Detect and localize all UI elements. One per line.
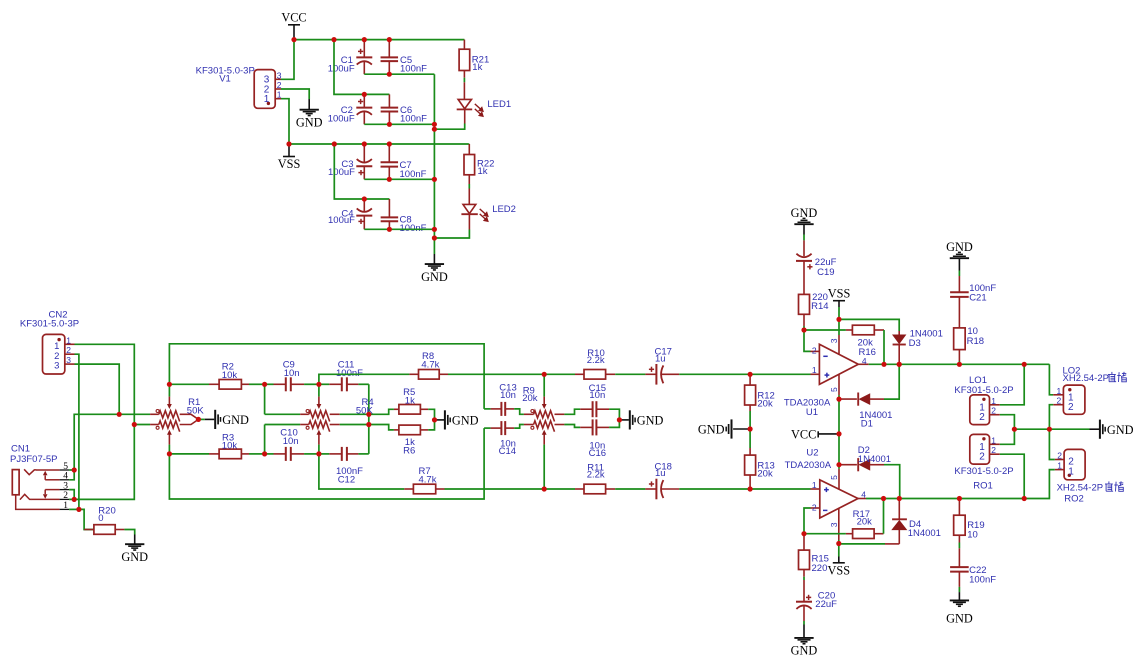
- svg-text:100uF: 100uF: [328, 215, 355, 226]
- wire VCC top rail: [294, 39, 464, 41]
- svg-text:VSS: VSS: [828, 287, 851, 301]
- svg-text:V1: V1: [219, 73, 231, 84]
- svg-text:100uF: 100uF: [328, 114, 355, 125]
- svg-text:RO2: RO2: [1064, 493, 1084, 504]
- svg-text:220: 220: [812, 563, 828, 574]
- svg-text:2: 2: [1057, 451, 1062, 461]
- wire R4 wiper top: [318, 384, 320, 396]
- resistor R19 10: [958, 499, 960, 516]
- wire CN2 pin2 down: [75, 354, 79, 509]
- wire R4 wiper bottom: [318, 445, 320, 454]
- label LO2 Chinese zhicha: [1108, 372, 1116, 382]
- U1 pin4 output stub: [858, 363, 868, 365]
- svg-text:1N4001: 1N4001: [858, 454, 891, 465]
- wire row2 feed: [334, 40, 389, 95]
- junction: [748, 486, 753, 491]
- ground GND bottom of power section: [433, 254, 435, 264]
- svg-text:GND: GND: [296, 116, 323, 130]
- svg-text:2: 2: [277, 80, 282, 90]
- U2 pin2 stub: [811, 507, 820, 509]
- junction: [167, 451, 172, 456]
- capacitor C9 10n: [265, 383, 274, 385]
- junction: [748, 372, 753, 377]
- wire U2 pin3 to VSS: [838, 540, 840, 557]
- svg-text:5: 5: [63, 462, 68, 472]
- junction: [362, 196, 367, 201]
- svg-text:KF301-5.0-2P: KF301-5.0-2P: [954, 466, 1013, 477]
- svg-text:50K: 50K: [187, 406, 205, 417]
- junction: [76, 507, 81, 512]
- capacitor C13 10n: [484, 408, 491, 410]
- power net VSS rail: [289, 143, 469, 145]
- svg-text:U2: U2: [806, 448, 818, 459]
- potentiometer R9 20k dual: [524, 413, 534, 415]
- resistor R14 220: [799, 294, 810, 314]
- power net VCC: [288, 24, 300, 26]
- svg-text:2: 2: [1068, 402, 1074, 413]
- svg-text:1: 1: [63, 501, 68, 511]
- svg-text:GND: GND: [946, 240, 973, 254]
- U2 pin1 stub: [811, 488, 820, 490]
- svg-text:2: 2: [812, 346, 817, 356]
- svg-text:10n: 10n: [500, 390, 516, 401]
- junction: [801, 531, 806, 536]
- svg-text:1: 1: [812, 365, 817, 375]
- junction: [196, 417, 201, 422]
- svg-text:1: 1: [991, 396, 996, 406]
- junction: [801, 327, 806, 332]
- svg-text:20k: 20k: [522, 393, 538, 404]
- resistor R21 1k: [463, 40, 465, 50]
- wire D1 to output: [884, 364, 899, 399]
- junction: [748, 426, 753, 431]
- resistor R16 20k feedback: [804, 329, 846, 331]
- diode D3 1N4001: [898, 331, 900, 335]
- wire LO1 pin1 to output: [1000, 364, 1024, 405]
- wire U1 inverting node: [804, 330, 811, 351]
- LED LED2: [468, 189, 470, 205]
- svg-text:1: 1: [264, 94, 270, 105]
- junction: [262, 451, 267, 456]
- connector LO2 XH2.54-2P: [1063, 385, 1085, 414]
- junction: [542, 372, 547, 377]
- wire V1 pin2 to GND: [281, 89, 309, 99]
- wire RO2 pin1 to output: [1024, 470, 1055, 499]
- capacitor C20 22uF: [803, 577, 805, 580]
- svg-text:2: 2: [812, 502, 817, 512]
- svg-text:R6: R6: [403, 446, 415, 457]
- junction: [316, 451, 321, 456]
- resistor R18 10: [954, 328, 966, 350]
- diode D1 1N4001: [839, 398, 857, 400]
- svg-text:C12: C12: [338, 475, 355, 486]
- ground GND at R20: [134, 535, 136, 545]
- svg-text:GND: GND: [698, 423, 725, 437]
- junction: [957, 362, 962, 367]
- svg-text:100nF: 100nF: [400, 114, 427, 125]
- capacitor C11 100nF: [319, 383, 329, 385]
- svg-text:GND: GND: [791, 206, 818, 220]
- capacitor C17 1u polarized: [645, 373, 656, 375]
- wire CN1 pins 5-4 to L input: [69, 414, 119, 480]
- svg-text:LED1: LED1: [487, 99, 511, 110]
- svg-text:10k: 10k: [222, 370, 238, 381]
- connector RO1 KF301-5.0-2P: [970, 434, 990, 464]
- R1 wiper arrow bottom: [168, 434, 170, 444]
- junction: [432, 177, 437, 182]
- ground GND at output connectors: [1090, 428, 1100, 430]
- capacitor C22 100nF: [958, 543, 960, 549]
- svg-text:XH2.54-2P: XH2.54-2P: [1063, 373, 1109, 384]
- svg-text:2: 2: [1056, 396, 1061, 406]
- svg-text:R18: R18: [967, 336, 984, 347]
- junction: [387, 227, 392, 232]
- resistor R12 20k: [749, 374, 751, 385]
- wire R16 to output: [883, 330, 885, 364]
- wire R9 wiper top: [543, 374, 545, 396]
- U1 pin2 stub: [811, 350, 820, 352]
- wire U1 output: [869, 363, 1050, 365]
- svg-text:XH2.54-2P: XH2.54-2P: [1057, 482, 1103, 493]
- svg-text:1k: 1k: [478, 166, 488, 177]
- capacitor C2 100uF: [363, 94, 365, 107]
- svg-text:10n: 10n: [589, 390, 605, 401]
- resistor R10 2.2k: [544, 373, 575, 375]
- capacitor C21 100nF: [958, 271, 960, 277]
- wire loop top rail: [169, 344, 484, 409]
- wire LED1 to GND column: [434, 124, 464, 130]
- svg-text:1: 1: [1057, 461, 1062, 471]
- svg-text:GND: GND: [222, 413, 249, 427]
- capacitor C19 22uF: [803, 235, 805, 241]
- connector RO2 XH2.54-2P: [1064, 449, 1085, 479]
- power symbol VSS at U2: [838, 557, 840, 563]
- junction: [897, 362, 902, 367]
- resistor R2 10k: [169, 383, 209, 385]
- junction: [362, 92, 367, 97]
- junction: [432, 235, 437, 240]
- wire RO1 pin2 to output: [1000, 454, 1024, 498]
- wire R21 to LED1: [463, 78, 465, 83]
- wire R20 to GND: [124, 530, 134, 535]
- junction: [432, 127, 437, 132]
- svg-text:3: 3: [829, 338, 839, 343]
- svg-text:VSS: VSS: [278, 157, 301, 171]
- svg-text:GND: GND: [121, 550, 148, 564]
- junction: [286, 141, 291, 146]
- svg-text:1: 1: [277, 90, 282, 100]
- wire CN2 pin1 down: [75, 344, 135, 424]
- ground GND below C22: [958, 587, 960, 592]
- U2 pin3 stub: [838, 508, 840, 540]
- diode D2 1N4001: [839, 464, 857, 466]
- wire R1 gang2 lead: [134, 424, 150, 426]
- junction: [387, 177, 392, 182]
- svg-text:100nF: 100nF: [400, 223, 427, 234]
- diode D4 1N4001: [898, 499, 900, 519]
- svg-text:10k: 10k: [222, 440, 238, 451]
- wire ground row LO RO: [1014, 428, 1089, 430]
- resistor R5 1k: [369, 409, 394, 414]
- LED LED1: [463, 82, 465, 99]
- svg-text:2.2k: 2.2k: [587, 470, 605, 481]
- svg-text:2: 2: [991, 445, 996, 455]
- svg-text:3: 3: [277, 70, 282, 80]
- svg-text:20k: 20k: [857, 517, 873, 528]
- junction: [316, 382, 321, 387]
- svg-text:C19: C19: [817, 267, 834, 278]
- resistor R6 1k: [369, 425, 394, 430]
- wire L channel junction: [119, 413, 150, 415]
- wire C3-C7 bottom row3: [364, 178, 434, 180]
- svg-text:KF301-5.0-3P: KF301-5.0-3P: [20, 319, 79, 330]
- capacitor C8 100nF: [388, 199, 390, 217]
- svg-text:D3: D3: [909, 338, 921, 349]
- wire LED2 to GND column: [434, 230, 469, 239]
- svg-text:VSS: VSS: [828, 563, 851, 577]
- svg-text:GND: GND: [1107, 423, 1134, 437]
- potentiometer R1 50K dual: [150, 413, 159, 415]
- junction: [836, 317, 841, 322]
- resistor R17 20k feedback: [804, 533, 846, 535]
- svg-text:20k: 20k: [757, 468, 773, 479]
- ground GND at R5 R6: [435, 419, 445, 421]
- resistor R7 4.7k: [319, 454, 404, 489]
- svg-text:PJ3F07-5P: PJ3F07-5P: [10, 454, 58, 465]
- resistor R22 1k: [468, 143, 471, 145]
- junction: [881, 496, 886, 501]
- wire R1 right to ground: [198, 418, 204, 420]
- wire C1-C5 bottom row1: [364, 73, 434, 75]
- svg-text:TDA2030A: TDA2030A: [785, 460, 832, 471]
- junction: [387, 72, 392, 77]
- junction: [72, 497, 77, 502]
- wire GND vertical column: [433, 74, 435, 254]
- junction: [836, 462, 841, 467]
- junction: [262, 382, 267, 387]
- wire R1 wiper bottom: [168, 445, 170, 454]
- svg-text:R14: R14: [811, 301, 828, 312]
- wire CN1 pins 3-2 to R input: [69, 490, 74, 500]
- potentiometer R4 50K dual: [264, 384, 266, 414]
- svg-text:GND: GND: [791, 644, 818, 658]
- junction: [1022, 496, 1027, 501]
- wire V1 pin3 to VCC: [281, 41, 294, 80]
- ground GND at C15 C16: [619, 419, 629, 421]
- wire RO2 pin2 to ground: [1049, 429, 1054, 459]
- wire R9 wiper bottom: [543, 445, 545, 489]
- junction: [332, 141, 337, 146]
- op-amp U2 TDA2030A: [820, 480, 858, 518]
- svg-text:10n: 10n: [283, 436, 299, 447]
- svg-text:5: 5: [829, 387, 839, 392]
- junction: [362, 141, 367, 146]
- svg-text:100uF: 100uF: [328, 167, 355, 178]
- R1 wiper arrow top: [168, 397, 170, 405]
- junction: [72, 467, 77, 472]
- ground GND above C19: [794, 223, 813, 225]
- capacitor C15 10n: [564, 409, 580, 414]
- junction: [542, 486, 547, 491]
- svg-text:1: 1: [1056, 386, 1061, 396]
- svg-text:1: 1: [1068, 467, 1074, 478]
- wire U2 inverting node: [804, 508, 811, 534]
- junction: [617, 417, 622, 422]
- wire C17 to U1 pin1: [750, 373, 810, 375]
- svg-text:C21: C21: [969, 293, 986, 304]
- svg-text:1N4001: 1N4001: [908, 528, 941, 539]
- capacitor C3 100uF: [363, 144, 365, 163]
- capacitor C1 100uF: [363, 40, 365, 58]
- svg-text:2.2k: 2.2k: [587, 355, 605, 366]
- capacitor C7 100nF: [388, 144, 390, 162]
- svg-text:4: 4: [63, 472, 68, 482]
- ground GND above C21: [950, 257, 969, 259]
- ground GND at R12 R13: [733, 428, 750, 430]
- junction: [897, 362, 902, 367]
- wire R channel to R1: [74, 425, 134, 500]
- resistor R13 20k: [749, 429, 751, 448]
- svg-text:RO1: RO1: [973, 481, 993, 492]
- svg-text:3: 3: [66, 355, 71, 365]
- svg-text:1u: 1u: [655, 354, 666, 365]
- svg-text:2: 2: [66, 345, 71, 355]
- U2 pin4 output stub: [858, 498, 866, 500]
- wire U2 output: [866, 498, 1024, 500]
- svg-text:2: 2: [991, 406, 996, 416]
- svg-text:10: 10: [967, 530, 978, 541]
- svg-text:C14: C14: [499, 446, 516, 457]
- svg-text:5: 5: [829, 475, 839, 480]
- power symbol VSS at U1: [833, 300, 845, 302]
- capacitor C12 100nF: [319, 453, 329, 455]
- junction: [957, 496, 962, 501]
- capacitor C10 10n: [265, 453, 274, 455]
- svg-text:100nF: 100nF: [400, 64, 427, 75]
- power symbol VSS: [288, 144, 290, 157]
- wire VCC to rail: [293, 25, 295, 40]
- svg-text:GND: GND: [946, 611, 973, 625]
- junction: [881, 362, 886, 367]
- svg-text:VCC: VCC: [791, 427, 816, 441]
- capacitor C16 10n: [564, 425, 580, 428]
- junction: [167, 382, 172, 387]
- svg-text:LED2: LED2: [492, 204, 516, 215]
- wire C11 R4 right column: [368, 384, 370, 454]
- wire loop bottom rail: [169, 428, 484, 499]
- ground GND below C20: [803, 621, 805, 625]
- connector V1 KF301-5.0-3P: [254, 70, 275, 109]
- capacitor C18 1u polarized: [645, 488, 656, 490]
- svg-text:C16: C16: [589, 448, 606, 459]
- svg-text:GND: GND: [637, 414, 664, 428]
- svg-text:1: 1: [991, 435, 996, 445]
- junction: [432, 417, 437, 422]
- junction: [362, 37, 367, 42]
- resistor R8 4.7k: [319, 374, 410, 384]
- svg-text:D1: D1: [861, 419, 873, 430]
- svg-text:3: 3: [829, 522, 839, 527]
- junction: [432, 227, 437, 232]
- junction: [366, 412, 371, 417]
- svg-text:2: 2: [63, 491, 68, 501]
- svg-text:10n: 10n: [284, 368, 300, 379]
- ground GND at V1: [308, 99, 310, 110]
- junction: [132, 422, 137, 427]
- wire output to LO2 pin1: [1049, 364, 1053, 395]
- U1 pin3 stub: [838, 335, 840, 355]
- junction: [387, 122, 392, 127]
- wire R1 wiper top: [168, 384, 170, 396]
- connector CN2 KF301-5.0-3P: [43, 334, 65, 374]
- resistor R15 220: [803, 534, 805, 550]
- svg-text:GND: GND: [452, 414, 479, 428]
- svg-text:20k: 20k: [757, 399, 773, 410]
- R4 wiper arrows: [318, 397, 320, 405]
- capacitor C6 100nF: [388, 94, 390, 107]
- resistor R11 2.2k: [544, 488, 575, 490]
- svg-text:0: 0: [98, 513, 103, 524]
- wire RO1 pin1 to ground: [1000, 429, 1015, 444]
- R9 wiper arrows: [543, 397, 545, 405]
- svg-text:4.7k: 4.7k: [421, 359, 439, 370]
- capacitor C5 100nF: [388, 40, 390, 58]
- svg-text:100uF: 100uF: [328, 64, 355, 75]
- wire D4 to VSS node: [885, 543, 899, 545]
- svg-text:1: 1: [66, 335, 71, 345]
- svg-text:2: 2: [979, 412, 985, 423]
- svg-text:VCC: VCC: [281, 11, 306, 25]
- wire D2 to output: [884, 465, 900, 499]
- junction: [836, 397, 841, 402]
- svg-text:1: 1: [812, 480, 817, 490]
- resistor R20 0: [84, 529, 94, 531]
- junction: [117, 412, 122, 417]
- wire row4 feed: [334, 144, 389, 199]
- wire C4-C8 bottom row4: [364, 228, 434, 230]
- junction: [331, 37, 336, 42]
- svg-text:100nF: 100nF: [969, 574, 996, 585]
- svg-text:1k: 1k: [405, 396, 415, 407]
- svg-text:22uF: 22uF: [815, 599, 837, 610]
- capacitor C14 10n: [484, 427, 491, 429]
- svg-text:2: 2: [979, 452, 985, 463]
- svg-text:4: 4: [862, 356, 867, 366]
- wire CN2 pin3 down: [75, 364, 120, 414]
- svg-text:4.7k: 4.7k: [419, 475, 437, 486]
- wire VSS to D3: [839, 319, 899, 331]
- wire CN1 pin1 to R20: [69, 508, 79, 510]
- junction: [366, 422, 371, 427]
- svg-text:KF301-5.0-2P: KF301-5.0-2P: [954, 385, 1013, 396]
- wire LO1 pin2 to ground: [1000, 415, 1015, 430]
- U1 pin5 stub: [838, 375, 840, 396]
- svg-text:3: 3: [54, 361, 59, 372]
- capacitor C4 100uF: [363, 199, 365, 212]
- junction: [387, 37, 392, 42]
- wire C2-C6 bottom row2: [364, 123, 434, 125]
- junction: [432, 122, 437, 127]
- svg-text:GND: GND: [421, 270, 448, 284]
- wire LO2 pin2 to ground: [1049, 405, 1053, 430]
- junction: [836, 541, 841, 546]
- wire V1 pin1 to VSS rail: [281, 99, 289, 144]
- wire C18 to U2 pin1: [750, 488, 810, 490]
- junction: [836, 431, 841, 436]
- junction: [1047, 427, 1052, 432]
- junction: [387, 141, 392, 146]
- resistor R3 10k: [169, 453, 209, 455]
